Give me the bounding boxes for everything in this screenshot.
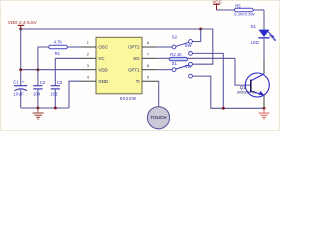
resistor R2	[157, 52, 235, 61]
junction dot C3 bottom	[54, 107, 57, 110]
svg-text:104: 104	[33, 92, 41, 97]
svg-text:8050(NPN): 8050(NPN)	[237, 91, 255, 95]
svg-text:VC: VC	[98, 56, 104, 61]
svg-text:C3: C3	[57, 80, 63, 85]
transistor Q1	[237, 60, 269, 108]
IC U1 8022W	[96, 37, 142, 94]
pin stub 8	[142, 46, 157, 48]
svg-text:VDD 2.4-5.5V: VDD 2.4-5.5V	[8, 20, 38, 25]
svg-text:R5: R5	[235, 4, 241, 9]
svg-text:1: 1	[87, 40, 89, 45]
wire LED cathode to collector	[263, 38, 265, 60]
svg-text:C2: C2	[40, 80, 46, 85]
switch S1	[157, 61, 192, 78]
wire R5 to LED anode	[263, 10, 265, 30]
junction dot ground bus	[222, 107, 225, 110]
wire ground rail	[21, 107, 69, 109]
svg-text:6: 6	[147, 63, 149, 68]
svg-text:103: 103	[50, 92, 58, 97]
svg-text:Q1: Q1	[240, 85, 246, 90]
svg-text:2: 2	[87, 52, 89, 57]
svg-text:4: 4	[87, 74, 90, 79]
svg-text:3: 3	[87, 63, 89, 68]
wire S2 upper throw to rail	[193, 29, 201, 42]
svg-text:C1: C1	[13, 79, 19, 84]
wire TI to touch pad	[158, 81, 160, 107]
junction dot rail S2 tap	[199, 28, 202, 31]
pin stub 6	[142, 69, 157, 71]
svg-text:10uF: 10uF	[13, 92, 24, 97]
svg-text:LED: LED	[251, 40, 259, 45]
wire GND pin4 down	[69, 81, 81, 108]
svg-text:8: 8	[147, 40, 149, 45]
resistor R1	[38, 40, 81, 70]
svg-text:R1: R1	[55, 51, 61, 56]
junction dot emitter	[263, 107, 266, 110]
svg-text:SW: SW	[185, 43, 192, 48]
svg-text:GND: GND	[98, 79, 108, 84]
ground (right)	[259, 108, 270, 119]
wire S1 lower throw to ground bus	[193, 76, 264, 108]
wire R2 to base	[235, 58, 251, 85]
svg-text:TI: TI	[136, 79, 140, 84]
svg-text:SW: SW	[185, 64, 192, 69]
junction dot VDD entry	[19, 28, 22, 31]
svg-text:8022W: 8022W	[120, 96, 137, 102]
junction dot C2 bottom	[36, 107, 39, 110]
svg-text:S1: S1	[172, 61, 178, 66]
svg-text:VDD: VDD	[98, 67, 107, 72]
svg-text:D1: D1	[251, 24, 257, 29]
svg-text:S2: S2	[172, 34, 178, 39]
svg-text:SO: SO	[133, 56, 140, 61]
wire VDD rail	[21, 28, 213, 30]
svg-text:5: 5	[147, 74, 149, 79]
pin stub 4	[81, 80, 96, 82]
svg-text:5.1R/0.5W: 5.1R/0.5W	[234, 11, 255, 16]
capacitor C1	[13, 29, 27, 108]
svg-text:TOUCH: TOUCH	[150, 115, 167, 120]
svg-text:OPT1: OPT1	[128, 67, 140, 72]
pin stub 7	[142, 57, 157, 59]
resistor R5	[217, 4, 265, 17]
power VDD	[8, 20, 38, 29]
svg-text:OPT2: OPT2	[128, 45, 140, 50]
capacitor C3	[50, 58, 62, 108]
pin stub 5	[142, 80, 159, 82]
svg-text:+: +	[22, 80, 25, 85]
junction dot C1 top	[19, 68, 22, 71]
wire S2 lower throw down	[193, 53, 224, 108]
svg-text:7: 7	[147, 52, 149, 57]
svg-text:4.7K: 4.7K	[54, 40, 63, 45]
switch S2	[157, 34, 192, 55]
wire VC pin2 to C3	[55, 57, 81, 59]
pin stub 2	[81, 57, 96, 59]
svg-text:R2 1K: R2 1K	[170, 52, 182, 57]
wire S1 upper throw to rail end	[193, 29, 213, 64]
svg-text:OSC: OSC	[98, 45, 108, 50]
power VCC	[213, 0, 222, 10]
wire VDD pin3 to caps	[21, 69, 81, 71]
pin stub 3	[81, 69, 96, 71]
ground (left)	[33, 108, 44, 119]
capacitor C2	[33, 70, 46, 108]
LED D1	[251, 24, 276, 45]
junction dot C2 top	[36, 68, 39, 71]
pin stub 1	[81, 46, 96, 48]
touch pad	[147, 107, 169, 129]
